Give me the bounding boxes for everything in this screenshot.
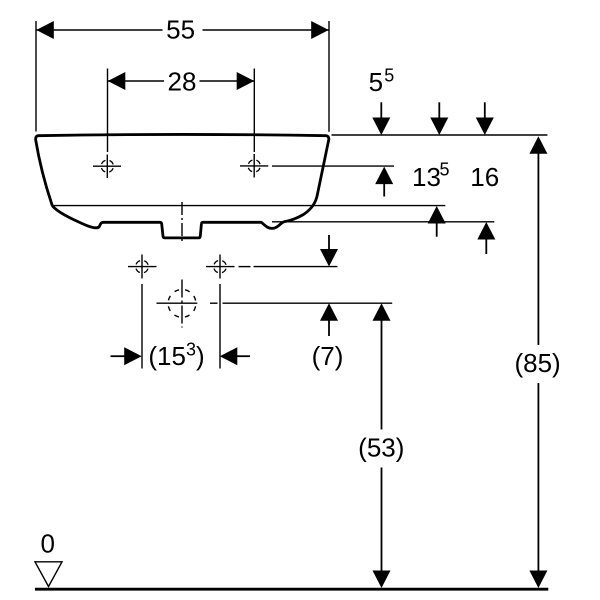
dimension 15.3 extension lines: [142, 284, 220, 369]
svg-text:5: 5: [440, 160, 450, 180]
tap hole right: [240, 154, 268, 178]
fixing hole left: [128, 255, 157, 279]
shelf line: [52, 205, 446, 207]
bottom reference line: [272, 221, 494, 223]
tap hole reference line: [272, 165, 394, 167]
dimension 28: [108, 69, 255, 153]
svg-text:5: 5: [369, 67, 383, 97]
dimension 7 arrows: [320, 235, 338, 336]
svg-text:(85): (85): [514, 348, 560, 378]
dimension 16 arrows: [476, 102, 496, 254]
svg-text:13: 13: [412, 162, 441, 192]
ground line: [35, 588, 548, 591]
svg-text:16: 16: [470, 162, 499, 192]
tap hole left: [93, 155, 121, 179]
dimension 85: [529, 136, 547, 588]
svg-text:(7): (7): [312, 341, 344, 371]
svg-text:0: 0: [40, 529, 54, 559]
dimension 15.3 arrows: [111, 347, 251, 365]
svg-text:5: 5: [384, 66, 394, 86]
drain reference line: [223, 302, 393, 304]
drain hole: [157, 280, 218, 328]
svg-text:28: 28: [168, 66, 197, 96]
dimension 13.5 arrows: [428, 102, 449, 236]
dimension 55: [36, 21, 329, 132]
datum zero symbol: [35, 562, 62, 587]
svg-text:(153): (153): [148, 340, 204, 371]
basin center axis: [181, 202, 183, 243]
top reference line: [332, 134, 548, 136]
dimension 5.5 arrows: [372, 102, 393, 196]
svg-text:55: 55: [166, 15, 195, 45]
fixing hole reference line: [239, 266, 338, 268]
dimension 53: [373, 303, 391, 588]
fixing hole right: [206, 255, 235, 279]
svg-text:(53): (53): [358, 432, 404, 462]
basin outline: [36, 134, 329, 237]
